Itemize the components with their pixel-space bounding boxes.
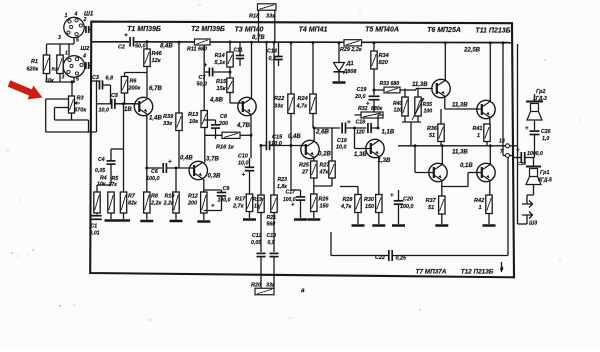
wire T2 collector bbox=[204, 127, 206, 162]
transistor T3 bbox=[238, 97, 256, 115]
svg-text:5,1к: 5,1к bbox=[215, 60, 227, 66]
svg-text:С2: С2 bbox=[118, 45, 125, 51]
resistor R25 27 bbox=[311, 161, 317, 178]
wire T7 collector bbox=[441, 146, 443, 165]
svg-text:10к: 10к bbox=[45, 78, 54, 84]
svg-text:+: + bbox=[291, 203, 295, 209]
wire T4 emitter bbox=[313, 158, 315, 161]
svg-text:R12: R12 bbox=[188, 194, 198, 200]
svg-text:R16 1к: R16 1к bbox=[216, 145, 235, 151]
capacitor C16 10,0 bbox=[342, 123, 345, 134]
capacitor C3 6,8 bbox=[91, 80, 98, 82]
terminal 7 bbox=[506, 154, 510, 158]
svg-text:100: 100 bbox=[424, 109, 433, 115]
transistor T6 bbox=[432, 79, 450, 97]
svg-text:Ш3: Ш3 bbox=[529, 221, 537, 227]
svg-text:100,0: 100,0 bbox=[283, 197, 296, 203]
svg-text:1В: 1В bbox=[124, 107, 132, 113]
svg-text:С1: С1 bbox=[91, 224, 98, 230]
svg-text:R13: R13 bbox=[188, 112, 199, 118]
svg-text:6,7В: 6,7В bbox=[149, 85, 162, 92]
svg-text:27: 27 bbox=[301, 170, 309, 176]
svg-text:4ГД-5: 4ГД-5 bbox=[537, 178, 552, 184]
svg-text:0,01: 0,01 bbox=[90, 231, 100, 237]
wire R3 left loop bbox=[46, 98, 69, 100]
svg-text:0,1В: 0,1В bbox=[460, 163, 473, 169]
transistor T10 bbox=[477, 163, 495, 181]
svg-text:R15: R15 bbox=[216, 79, 227, 85]
svg-text:R29 2,2к: R29 2,2к bbox=[340, 47, 362, 53]
svg-text:R39: R39 bbox=[163, 114, 174, 120]
svg-text:10,0: 10,0 bbox=[238, 161, 249, 167]
svg-text:R32: R32 bbox=[358, 106, 368, 112]
resistor R40 120 bbox=[402, 97, 408, 116]
scan noise specks (decorative) bbox=[11, 252, 13, 254]
svg-text:4: 4 bbox=[82, 54, 86, 60]
svg-text:0,05: 0,05 bbox=[251, 240, 261, 246]
svg-text:+: + bbox=[516, 148, 520, 154]
resistor R14 5,1к bbox=[227, 52, 233, 67]
svg-text:Ш1: Ш1 bbox=[84, 12, 94, 18]
svg-text:С18: С18 bbox=[356, 120, 366, 126]
svg-text:+: + bbox=[124, 32, 128, 39]
svg-text:а: а bbox=[301, 287, 305, 294]
wire middle vertical left bbox=[260, 146, 262, 196]
wire T5 emitter bbox=[378, 157, 380, 195]
wire bottom return bbox=[331, 255, 389, 257]
svg-text:1ГД-3: 1ГД-3 bbox=[533, 96, 547, 102]
wire T3 collector bbox=[251, 42, 253, 98]
svg-text:1: 1 bbox=[65, 51, 68, 57]
capacitor at Ш1 output bbox=[86, 26, 89, 33]
svg-text:27к: 27к bbox=[108, 182, 118, 188]
svg-text:Т6 МП25А: Т6 МП25А bbox=[427, 27, 461, 34]
svg-text:R35: R35 bbox=[423, 102, 433, 108]
wire T6 emitter bbox=[444, 97, 446, 109]
capacitor C20 100,0 bbox=[394, 201, 404, 204]
resistor R33 680 bbox=[384, 87, 400, 93]
wire input node vertical bbox=[96, 81, 98, 132]
resistor R1 620к bbox=[43, 55, 49, 74]
svg-text:С14: С14 bbox=[267, 49, 277, 55]
svg-text:R28: R28 bbox=[343, 197, 353, 203]
svg-text:+: + bbox=[211, 204, 215, 210]
connector Ш1 bbox=[64, 17, 84, 37]
svg-text:R27: R27 bbox=[320, 163, 331, 169]
svg-text:R3: R3 bbox=[77, 96, 85, 102]
svg-text:R26: R26 bbox=[319, 197, 330, 203]
loudspeaker Гр1 4ГД-5 bbox=[526, 166, 541, 168]
svg-text:33к: 33к bbox=[266, 14, 276, 20]
terminal 13 bbox=[506, 144, 510, 148]
svg-text:0,5: 0,5 bbox=[268, 240, 275, 246]
wire T4-T5 coupling bbox=[314, 127, 340, 129]
resistor R16 1к bbox=[222, 132, 240, 138]
svg-text:11,3В: 11,3В bbox=[452, 149, 468, 156]
svg-text:R2: R2 bbox=[52, 67, 58, 73]
capacitor C26 1,0 bbox=[530, 131, 540, 134]
resistor R11 680 bbox=[195, 39, 211, 45]
wire term7 to cap bbox=[510, 155, 514, 157]
svg-text:33к: 33к bbox=[274, 104, 284, 110]
svg-text:1,4В: 1,4В bbox=[149, 115, 162, 122]
wire T4 collector bbox=[313, 128, 315, 141]
capacitor C2 50,0 bbox=[130, 37, 133, 47]
svg-text:С26: С26 bbox=[541, 129, 551, 135]
svg-text:10,0: 10,0 bbox=[271, 141, 283, 147]
svg-text:12к: 12к bbox=[152, 58, 162, 64]
svg-text:+: + bbox=[525, 126, 529, 132]
svg-text:Д808: Д808 bbox=[343, 69, 357, 75]
svg-text:470к: 470к bbox=[73, 108, 87, 114]
resistor R27 47к bbox=[329, 161, 335, 178]
transistor T7 bbox=[429, 163, 447, 181]
svg-text:120: 120 bbox=[394, 108, 403, 114]
svg-text:R14: R14 bbox=[215, 53, 226, 59]
svg-text:R10: R10 bbox=[165, 194, 175, 200]
supply bus wire bbox=[91, 41, 129, 43]
svg-text:13: 13 bbox=[499, 139, 505, 145]
svg-text:100,0: 100,0 bbox=[146, 176, 160, 182]
svg-text:R24: R24 bbox=[298, 96, 309, 102]
svg-text:10к: 10к bbox=[97, 182, 106, 188]
svg-text:R30: R30 bbox=[364, 197, 374, 203]
resistor R15 15к bbox=[227, 78, 233, 93]
svg-text:11,3В: 11,3В bbox=[412, 82, 428, 88]
svg-text:1: 1 bbox=[479, 205, 482, 211]
svg-text:Ш2: Ш2 bbox=[81, 46, 91, 52]
svg-text:С11: С11 bbox=[234, 48, 243, 54]
svg-text:4,7к: 4,7к bbox=[296, 104, 309, 110]
wire T8 emitter bbox=[489, 118, 491, 124]
svg-text:С4: С4 bbox=[98, 157, 105, 163]
resistor R7 82к bbox=[120, 192, 126, 213]
svg-text:Т7 МП37А: Т7 МП37А bbox=[416, 269, 447, 276]
resistor R24 4,7к bbox=[310, 94, 316, 114]
potentiometer R35 100 bbox=[415, 97, 421, 116]
wire T3 emitter bbox=[250, 115, 252, 135]
wire T2 emitter bbox=[203, 179, 205, 192]
wire R3 bottom to border bbox=[71, 113, 73, 120]
svg-text:2: 2 bbox=[83, 17, 87, 23]
svg-text:Т4 МП41: Т4 МП41 bbox=[299, 27, 328, 34]
svg-text:100,0: 100,0 bbox=[218, 198, 231, 204]
svg-text:0,4В: 0,4В bbox=[288, 134, 301, 140]
svg-text:R8: R8 bbox=[151, 194, 158, 200]
svg-text:2,2к: 2,2к bbox=[163, 201, 174, 207]
svg-text:+: + bbox=[390, 193, 394, 199]
svg-text:+: + bbox=[242, 172, 246, 179]
svg-text:0,1: 0,1 bbox=[269, 56, 277, 62]
svg-text:4,7В: 4,7В bbox=[236, 122, 250, 129]
svg-text:Гр2: Гр2 bbox=[536, 89, 545, 95]
svg-text:2,6В: 2,6В bbox=[315, 129, 329, 136]
resistor R29 2,2к (series in bus) bbox=[344, 40, 362, 46]
capacitor C17 100,0 bbox=[296, 197, 306, 200]
wire T10 emitter bbox=[489, 181, 491, 195]
diode Д1 Д808 bbox=[338, 43, 340, 62]
svg-text:R41: R41 bbox=[473, 126, 483, 132]
wire T6-T8 link bbox=[445, 108, 482, 110]
svg-text:С12: С12 bbox=[252, 233, 262, 239]
svg-text:8,4В: 8,4В bbox=[160, 44, 173, 50]
svg-text:0,3В: 0,3В bbox=[208, 173, 221, 180]
capacitor C8 200 bbox=[211, 125, 220, 128]
capacitor C28 1000,0 bbox=[521, 152, 524, 163]
svg-text:С22: С22 bbox=[375, 255, 385, 261]
svg-text:5: 5 bbox=[76, 38, 79, 44]
svg-text:R36: R36 bbox=[427, 126, 438, 132]
capacitor C6 100,0 bbox=[147, 167, 162, 169]
wire T7 emitter / T10 base bbox=[441, 181, 443, 196]
svg-text:1,3В: 1,3В bbox=[354, 152, 367, 158]
svg-text:120: 120 bbox=[356, 130, 365, 136]
resistor R32 680к bbox=[361, 112, 383, 118]
svg-text:R33 680: R33 680 bbox=[380, 81, 400, 87]
transistor T1 bbox=[134, 97, 152, 115]
svg-text:5: 5 bbox=[76, 77, 79, 83]
svg-text:0,4В: 0,4В bbox=[180, 156, 193, 162]
svg-text:R40: R40 bbox=[393, 101, 402, 107]
resistor R46 12к bbox=[144, 49, 150, 67]
svg-text:С20: С20 bbox=[403, 197, 413, 203]
svg-text:Гр1: Гр1 bbox=[540, 170, 549, 176]
wire T10 collector bbox=[489, 146, 491, 165]
svg-text:С17: С17 bbox=[286, 190, 297, 196]
svg-text:200: 200 bbox=[187, 201, 197, 207]
svg-text:11,3В: 11,3В bbox=[452, 103, 468, 109]
resistor R5 27к bbox=[108, 192, 114, 213]
transistor T2 bbox=[189, 161, 207, 179]
svg-text:С13: С13 bbox=[267, 233, 277, 239]
svg-text:1к: 1к bbox=[254, 204, 260, 210]
svg-text:150: 150 bbox=[320, 204, 329, 210]
svg-text:1: 1 bbox=[65, 13, 68, 19]
resistor R10 2,2к bbox=[173, 192, 179, 213]
transistor T4 bbox=[301, 140, 319, 158]
svg-text:22,5В: 22,5В bbox=[463, 48, 481, 54]
resistor R28 4,7к bbox=[355, 195, 361, 213]
svg-text:560: 560 bbox=[267, 222, 276, 228]
potentiometer R3 470к bbox=[69, 96, 75, 113]
svg-text:47к: 47к bbox=[319, 170, 329, 176]
svg-text:R46: R46 bbox=[152, 51, 163, 57]
wire mid feed vertical bbox=[266, 42, 268, 141]
svg-text:+: + bbox=[347, 119, 351, 126]
svg-text:R1: R1 bbox=[31, 59, 38, 65]
svg-text:33к: 33к bbox=[266, 283, 275, 289]
svg-text:R21: R21 bbox=[267, 215, 277, 221]
svg-text:R6: R6 bbox=[130, 79, 138, 85]
red annotation arrow bbox=[8, 80, 43, 99]
svg-text:R19: R19 bbox=[253, 197, 263, 203]
svg-text:3,7В: 3,7В bbox=[206, 156, 219, 163]
svg-text:С10: С10 bbox=[238, 154, 248, 160]
resistor R8 2,2к bbox=[144, 192, 150, 213]
resistor R42 1 bbox=[486, 195, 492, 214]
svg-text:4: 4 bbox=[74, 12, 78, 18]
svg-text:150: 150 bbox=[365, 204, 374, 210]
wire T8 collector bbox=[489, 43, 491, 101]
wire speaker feed bbox=[510, 145, 518, 147]
loudspeaker Гр2 1ГД-3 bbox=[526, 101, 543, 103]
resistor R30 150 bbox=[376, 195, 382, 213]
wire mid rail bbox=[398, 145, 506, 147]
transistor T5 bbox=[366, 139, 384, 157]
resistor R12 200 bbox=[201, 192, 207, 213]
capacitor C10 10,0 bbox=[245, 167, 255, 170]
svg-text:С16: С16 bbox=[337, 138, 348, 144]
svg-text:R37: R37 bbox=[426, 198, 437, 204]
svg-text:50,0: 50,0 bbox=[197, 82, 208, 88]
capacitor at Ш2 output bbox=[86, 62, 89, 69]
svg-text:R34: R34 bbox=[379, 53, 390, 59]
resistor R20 33к bbox=[255, 288, 274, 295]
capacitor C19 20,0 bbox=[369, 96, 380, 99]
svg-text:R11 680: R11 680 bbox=[187, 47, 207, 53]
svg-text:200: 200 bbox=[218, 121, 228, 127]
svg-text:3: 3 bbox=[62, 75, 65, 81]
resistor R4 10к bbox=[94, 192, 100, 213]
connector Ш3 plugs bbox=[522, 201, 533, 219]
svg-text:С19: С19 bbox=[357, 87, 367, 93]
capacitor C14 0,1 bbox=[274, 57, 283, 60]
svg-text:С28: С28 bbox=[517, 161, 526, 167]
svg-text:Т2 МП39Б: Т2 МП39Б bbox=[191, 26, 225, 33]
capacitor C22 0,25 bbox=[389, 250, 392, 261]
wire T6 base row bbox=[416, 88, 433, 90]
capacitor C5 10,0 bbox=[97, 103, 112, 105]
svg-text:10,0: 10,0 bbox=[336, 145, 347, 151]
resistor R6 200к bbox=[121, 77, 127, 94]
resistor R37 51 bbox=[439, 196, 445, 214]
svg-text:200к: 200к bbox=[128, 86, 141, 92]
resistor R19 1к bbox=[258, 195, 264, 213]
svg-text:680к: 680к bbox=[371, 106, 383, 112]
svg-text:R20: R20 bbox=[251, 283, 261, 289]
resistor R17 2,7к bbox=[246, 194, 252, 212]
resistor R41 1 bbox=[484, 124, 490, 142]
capacitor C1 0,01 bbox=[96, 213, 98, 215]
svg-text:+: + bbox=[204, 62, 208, 69]
svg-text:R23: R23 bbox=[278, 177, 288, 183]
capacitor C12 0,05 bbox=[257, 253, 266, 256]
wire divider bottom row bbox=[47, 81, 76, 83]
resistor R26 150 bbox=[311, 194, 317, 212]
resistor R22 33к bbox=[288, 94, 294, 114]
svg-text:1,3В: 1,3В bbox=[378, 157, 391, 164]
capacitor C9 100,0 bbox=[217, 193, 227, 196]
svg-text:R18: R18 bbox=[249, 14, 260, 20]
svg-text:1,0: 1,0 bbox=[542, 136, 549, 142]
capacitor C4 0,05 bbox=[107, 161, 116, 164]
svg-text:Т11 П213Б: Т11 П213Б bbox=[475, 28, 510, 35]
svg-text:2,2к: 2,2к bbox=[150, 201, 161, 207]
schematic border frame bbox=[90, 22, 514, 278]
svg-text:2,7к: 2,7к bbox=[232, 204, 245, 210]
svg-text:С3: С3 bbox=[92, 75, 99, 81]
capacitor C7 50,0 bbox=[209, 68, 212, 77]
svg-text:R7: R7 bbox=[128, 194, 136, 200]
resistor R34 820 bbox=[371, 51, 377, 69]
svg-text:51: 51 bbox=[429, 133, 435, 139]
svg-text:82к: 82к bbox=[128, 201, 137, 207]
svg-text:Т3 МП40: Т3 МП40 bbox=[235, 27, 264, 34]
resistor R13 10к bbox=[201, 111, 207, 128]
svg-text:20,0: 20,0 bbox=[354, 94, 366, 100]
resistor R39 33к bbox=[176, 113, 182, 131]
svg-text:33к: 33к bbox=[163, 121, 173, 127]
svg-text:1,1В: 1,1В bbox=[382, 130, 395, 136]
connector Ш2 bbox=[63, 56, 85, 78]
svg-text:0,2В: 0,2В bbox=[318, 151, 331, 158]
svg-text:С15: С15 bbox=[272, 135, 283, 141]
wire T6 collector bbox=[444, 43, 446, 81]
svg-text:1: 1 bbox=[477, 133, 480, 139]
svg-text:R25: R25 bbox=[299, 163, 310, 169]
svg-text:Т12 П213Б: Т12 П213Б bbox=[461, 269, 494, 276]
svg-text:4,8В: 4,8В bbox=[209, 97, 223, 104]
capacitor C15 10,0 bbox=[261, 145, 266, 147]
resistor R36 51 bbox=[438, 124, 444, 142]
wire T1 emitter bbox=[146, 115, 148, 192]
svg-text:Д1: Д1 bbox=[346, 61, 354, 67]
svg-text:С7: С7 bbox=[199, 75, 207, 81]
svg-text:R22: R22 bbox=[274, 96, 285, 102]
svg-text:820: 820 bbox=[379, 60, 389, 66]
capacitor C11 0,1 bbox=[236, 56, 245, 59]
svg-text:100,0: 100,0 bbox=[400, 204, 414, 210]
capacitor C13 0,5 bbox=[270, 253, 279, 256]
svg-text:8,7В: 8,7В bbox=[252, 35, 265, 41]
wire Ш1 bottom to divider bbox=[73, 38, 75, 44]
svg-text:R42: R42 bbox=[474, 198, 485, 204]
svg-text:+: + bbox=[168, 159, 172, 166]
svg-text:620к: 620к bbox=[27, 67, 39, 73]
svg-text:Т5 МП40А: Т5 МП40А bbox=[365, 27, 399, 34]
wires to R20 bbox=[260, 257, 262, 289]
svg-text:С9: С9 bbox=[223, 186, 230, 192]
transistor T8 bbox=[477, 100, 495, 118]
svg-text:0,25: 0,25 bbox=[396, 256, 407, 262]
svg-text:С8: С8 bbox=[220, 114, 227, 120]
svg-text:4,7к: 4,7к bbox=[340, 204, 351, 210]
svg-text:15к: 15к bbox=[217, 86, 227, 92]
svg-text:Т1 МП39Б: Т1 МП39Б bbox=[127, 26, 161, 33]
wire middle vertical right bbox=[273, 42, 275, 195]
svg-text:10,0: 10,0 bbox=[99, 108, 110, 114]
svg-text:6,8: 6,8 bbox=[106, 76, 114, 82]
svg-text:С6: С6 bbox=[151, 169, 159, 175]
svg-text:3: 3 bbox=[58, 35, 61, 41]
resistor R2 10к bbox=[57, 55, 63, 74]
svg-text:51: 51 bbox=[428, 205, 434, 211]
resistor R21 560 bbox=[271, 195, 277, 213]
capacitor C18 120 bbox=[368, 123, 371, 133]
resistor R18 33к bbox=[258, 4, 277, 10]
svg-text:С5: С5 bbox=[111, 93, 119, 99]
svg-text:R17: R17 bbox=[235, 197, 246, 203]
svg-text:0,05: 0,05 bbox=[95, 168, 105, 174]
svg-text:10к: 10к bbox=[189, 119, 199, 125]
